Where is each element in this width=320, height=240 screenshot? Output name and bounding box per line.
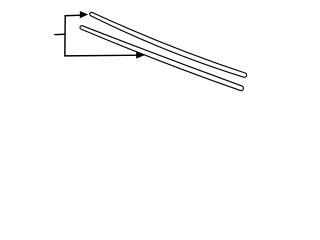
rod 2 (bottom curved blade) (80, 26, 243, 91)
rod 1 (top curved blade) (90, 12, 247, 77)
arrowhead bottom (136, 51, 145, 58)
wire bracket polyline (65, 15, 138, 56)
arrowhead top (80, 11, 88, 18)
wire tick (54, 33, 65, 36)
